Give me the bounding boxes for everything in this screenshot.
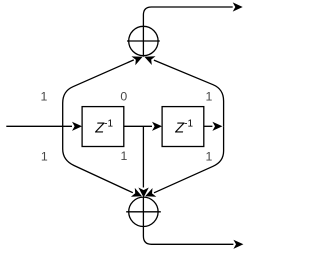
- svg-text:1: 1: [205, 90, 212, 104]
- svg-text:1: 1: [40, 90, 47, 104]
- svg-text:1: 1: [120, 149, 127, 163]
- svg-text:1: 1: [41, 149, 48, 163]
- svg-text:0: 0: [120, 90, 127, 104]
- svg-text:1: 1: [205, 149, 212, 163]
